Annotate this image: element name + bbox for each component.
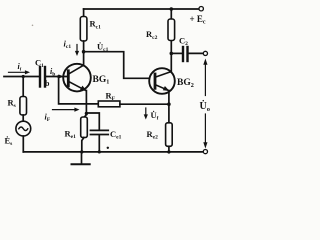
resistor Rc2 xyxy=(168,19,175,41)
wire: source to bottom rail xyxy=(22,136,24,152)
wire: BG2 emitter column xyxy=(168,91,170,123)
wire: Rc2 top stub xyxy=(170,9,172,19)
node: BG2 collector / C2 xyxy=(170,52,174,56)
wire: feedback tap from base node down xyxy=(59,77,99,104)
terminal: output bottom xyxy=(203,150,207,154)
resistor Re1 xyxy=(81,117,88,138)
node: BG2 emitter / RF xyxy=(167,102,171,106)
resistor Re2 xyxy=(166,123,173,147)
wire: BG1 collector column xyxy=(83,41,85,65)
wire: branch to Ce1 xyxy=(86,113,99,130)
wire: Rc1 top stub xyxy=(83,9,85,17)
terminal +Ec xyxy=(199,7,203,11)
wire: Re1 bottom to rail xyxy=(82,138,84,152)
wire: Rs to source xyxy=(22,115,24,121)
node: Re2 at rail xyxy=(167,150,170,153)
wire: link to Re1 xyxy=(84,115,86,118)
terminal: output top xyxy=(203,51,207,55)
node: top rail / Rc2 junction xyxy=(170,7,174,11)
capacitor C1 xyxy=(39,67,41,87)
wire: BG2 collector column xyxy=(170,41,172,72)
resistor Rs xyxy=(20,97,27,116)
faint speck xyxy=(32,25,34,27)
capacitor Ce1 xyxy=(91,129,109,131)
node: Ce1 at rail xyxy=(98,150,101,153)
node: Re1 at rail xyxy=(80,150,83,153)
voltage arrow Uo (up head) xyxy=(204,62,206,96)
wire: top supply rail xyxy=(84,8,199,10)
current arrow ic1 xyxy=(76,45,78,54)
node: Rs tap on input wire xyxy=(22,75,25,78)
voltage arrow Uo (down head) xyxy=(204,114,206,145)
wire: to C2 xyxy=(171,52,182,54)
node: BG1 collector xyxy=(82,50,86,54)
capacitor C2 xyxy=(182,47,184,61)
transistor BG2 xyxy=(149,68,175,94)
ground xyxy=(81,152,83,164)
current arrow iF xyxy=(53,109,77,111)
resistor Rc1 xyxy=(80,17,87,42)
wire: input line xyxy=(4,76,39,78)
wire: BG1 emitter column xyxy=(85,91,87,115)
stray junction mark xyxy=(107,147,109,149)
wire: Rs drop xyxy=(22,77,24,97)
current arrow ib xyxy=(58,74,63,78)
current arrow ii xyxy=(9,71,27,73)
transistor BG1 xyxy=(63,64,91,92)
node: emitter / Ce1 branch xyxy=(85,112,88,115)
resistor RF xyxy=(98,101,120,107)
wire: C1 to base xyxy=(45,76,68,78)
wire: C2 to output xyxy=(188,52,204,54)
wire: Re2 to rail xyxy=(168,146,170,152)
source Es xyxy=(16,121,31,136)
wire: interstage coupling (BG1 collector to BG2 base) xyxy=(84,52,150,79)
voltage arrow Uf xyxy=(145,108,147,117)
wire: bottom rail xyxy=(23,151,203,153)
wire: RF to BG2 emitter node xyxy=(120,103,169,105)
